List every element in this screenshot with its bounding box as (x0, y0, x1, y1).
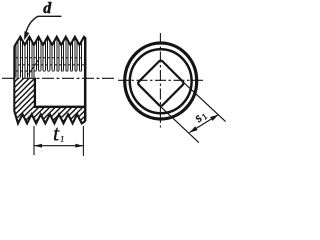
vertical centerline right view (159, 33, 161, 128)
section boundary diagonal (29, 59, 40, 75)
thread root dash rows (16, 58, 84, 71)
s1 extension line lower (flat extended) (161, 107, 199, 143)
leader arrowhead d (24, 31, 29, 40)
thread crest zigzag top (14, 37, 85, 47)
thread crest zigzag bottom (14, 111, 85, 123)
square socket (rotated 45) (137, 60, 184, 107)
leader line for d (25, 16, 62, 37)
inner circle (minor diameter) (130, 49, 192, 113)
svg-text:d: d (43, 0, 52, 17)
svg-text:t: t (53, 121, 60, 146)
section hatching (lower half material) (0, 58, 160, 130)
s1 dimension line (189, 115, 218, 133)
thread flank vertical lines (upper half texture) (16, 37, 82, 77)
horizontal centerline right view (118, 79, 204, 81)
right face edge (84, 37, 87, 121)
t1 extension line right (82, 126, 84, 156)
s1 arrowheads (189, 115, 218, 133)
t1 dimension line (34, 145, 83, 147)
svg-text:1: 1 (60, 135, 64, 144)
outer thread circle (125, 43, 197, 119)
label s1 (191, 107, 210, 126)
socket side wall (34, 78, 36, 108)
t1 arrowheads (34, 144, 83, 148)
t1 extension line left (33, 126, 35, 155)
s1 extension line upper (flat extended) (184, 83, 226, 122)
centerline left view axis (2, 77, 117, 79)
left face edge (13, 46, 15, 111)
socket bottom edge (34, 106, 86, 108)
